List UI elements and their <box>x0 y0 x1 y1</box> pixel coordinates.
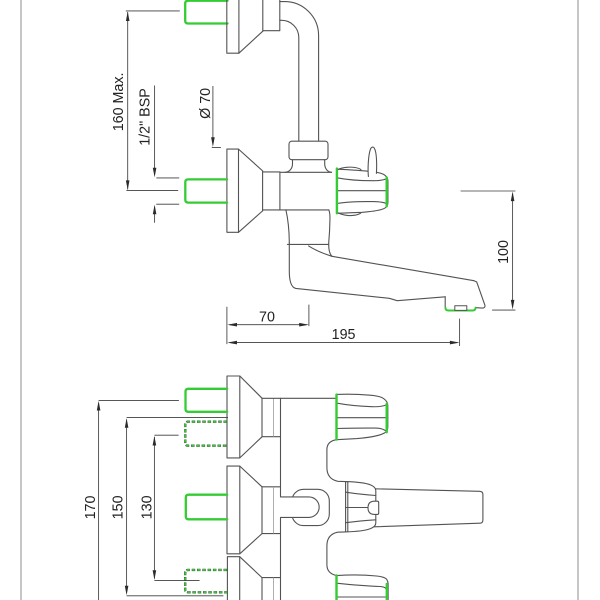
arrow 195 right <box>450 341 460 345</box>
middle inlet pipe (green) <box>185 179 227 202</box>
plan body front edge <box>280 398 282 600</box>
spout tube (plan) <box>374 489 483 527</box>
knob 2 facets <box>337 583 389 597</box>
knob bottom skirt wedge <box>338 213 361 216</box>
spout top joint line <box>287 243 328 245</box>
knob facet lower <box>337 202 387 204</box>
arrow bsp top down <box>153 168 157 178</box>
plan inlet pipe 2 (green solid) <box>186 495 227 520</box>
spout left and bottom outline <box>289 242 445 300</box>
aerator green ring <box>446 308 476 311</box>
spout root rear curve <box>329 210 332 256</box>
plan flange 3 cone <box>240 557 262 578</box>
middle flange cone <box>239 149 263 232</box>
dim 70 lines <box>227 305 309 345</box>
dim 160 Max line <box>127 12 129 190</box>
plan flange 3 plate <box>227 557 239 600</box>
diverter lever tip (plan) <box>368 501 379 514</box>
scallop between spout and knob 2 <box>327 532 346 576</box>
shower elbow boss (plan) <box>292 489 329 525</box>
plan flange 3 rings <box>262 578 281 600</box>
dim 1/2 BSP leader lines <box>155 86 180 223</box>
middle wall flange plate <box>227 149 239 232</box>
body top edge <box>280 171 332 173</box>
top inlet pipe (green, to overhead shower flange) <box>185 1 227 24</box>
body bottom edge <box>263 209 329 211</box>
svg-text:1/2" BSP: 1/2" BSP <box>138 88 154 146</box>
arrow 100 up <box>511 192 515 202</box>
spout collar facets <box>346 492 376 523</box>
knob outline (side view) <box>337 169 388 213</box>
arrow 130 up <box>153 436 157 446</box>
arrow 150 down <box>125 586 129 596</box>
dim 100 lines <box>461 191 516 310</box>
knob 2 outline (plan, cut) <box>337 575 389 600</box>
svg-text:195: 195 <box>332 327 356 343</box>
plan flange 1 plate <box>227 376 240 458</box>
plan body top edge <box>262 397 337 399</box>
aerator notch <box>455 306 467 311</box>
arrowheads <box>97 11 515 595</box>
arrow 195 left <box>227 341 237 345</box>
shower elbow pipe capsule (plan) <box>281 497 320 518</box>
svg-text:100: 100 <box>496 240 512 264</box>
diverter lever <box>368 147 377 176</box>
dim 150 lines <box>127 418 228 596</box>
plan flange 2 rings <box>262 487 281 534</box>
svg-text:130: 130 <box>140 495 156 519</box>
dim dia 70 leader <box>212 86 221 148</box>
shower pipe bend <box>280 2 319 142</box>
spout collar (plan) <box>346 482 376 532</box>
arrow bsp bottom up <box>153 205 157 215</box>
middle flange neck <box>263 171 280 211</box>
plan inlet pipe 3 alternate (green dashed) <box>185 570 227 592</box>
knob 1 facets <box>337 403 388 432</box>
arrow 160 bottom down <box>126 180 130 190</box>
svg-text:170: 170 <box>83 496 99 520</box>
knob top skirt wedge <box>338 167 361 170</box>
dim 160 Max extension lines <box>126 11 180 191</box>
pipe collar on body <box>289 141 328 160</box>
arrow 100 down <box>511 300 515 310</box>
svg-text:70: 70 <box>259 309 275 325</box>
svg-text:160 Max.: 160 Max. <box>111 72 127 131</box>
plan flange 2 plate <box>227 466 240 554</box>
spout collar inner edge <box>347 482 349 532</box>
arrow 70 left <box>227 323 237 327</box>
svg-text:Ø 70: Ø 70 <box>198 88 214 119</box>
dim 195 lines <box>230 319 460 346</box>
top flange cone <box>239 31 263 53</box>
aerator housing <box>445 297 476 311</box>
top flange neck <box>263 0 280 31</box>
dim 170 lines <box>99 400 179 600</box>
arrow 160 top up <box>126 11 130 21</box>
scallop between knob 1 and spout <box>327 440 346 482</box>
plan flange 2 cone <box>240 466 262 554</box>
svg-text:150: 150 <box>110 495 126 519</box>
knob green right ring <box>386 178 388 207</box>
knob facet upper <box>337 178 387 181</box>
collar neck fillets <box>285 160 293 173</box>
arrow 130 down <box>153 570 157 580</box>
plan flange 1 cone <box>240 376 262 458</box>
top wall flange plate <box>227 0 239 53</box>
plan inlet pipe 1 alternate (green dashed) <box>185 422 227 446</box>
arrow 150 up <box>125 418 129 428</box>
knob green front edge <box>336 169 338 214</box>
knob 2 green edges <box>335 575 337 600</box>
dim 130 lines <box>154 435 199 580</box>
knob 1 green edges <box>335 395 337 440</box>
knob facet middle <box>337 190 388 192</box>
spout top edge <box>332 256 474 280</box>
plan flange 1 rings <box>262 398 281 437</box>
body to spout front curve <box>286 210 289 242</box>
arrow 170 up <box>97 401 101 411</box>
frame right border <box>577 0 579 600</box>
arrow dia70 down <box>211 137 215 147</box>
knob 1 outline (plan) <box>337 394 388 439</box>
frame left border <box>20 0 22 600</box>
plan inlet pipe 1 (green solid) <box>186 389 228 412</box>
arrow 70 right <box>299 323 309 327</box>
spout top fillet <box>309 246 332 256</box>
spout tip <box>474 281 485 308</box>
